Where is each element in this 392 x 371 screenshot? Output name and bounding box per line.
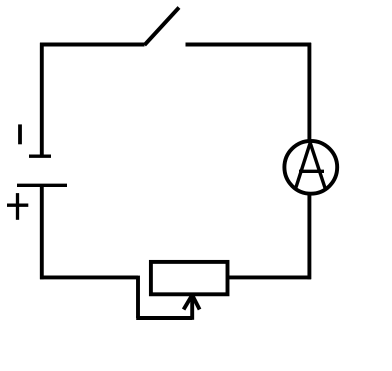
wire left vertical lower <box>40 186 44 280</box>
wire wiper step vertical <box>136 276 140 318</box>
wire bottom-right horizontal <box>229 275 311 279</box>
wire top-left horizontal <box>40 43 145 47</box>
wire bottom-left horizontal <box>40 275 138 279</box>
wire top-right horizontal <box>186 43 312 47</box>
battery negative plate <box>29 155 51 158</box>
battery positive plate <box>17 184 67 187</box>
ammeter letter A <box>296 143 326 189</box>
wire left vertical upper <box>40 43 44 158</box>
wire right vertical upper <box>307 43 311 140</box>
label minus <box>18 124 22 144</box>
rheostat wiper arrow <box>184 295 200 320</box>
rheostat body <box>151 262 228 294</box>
wire right vertical lower <box>307 194 311 280</box>
label plus <box>7 193 28 220</box>
ammeter A1 circle <box>284 141 337 194</box>
switch blade <box>145 8 180 46</box>
wire wiper tap horizontal <box>136 316 192 320</box>
